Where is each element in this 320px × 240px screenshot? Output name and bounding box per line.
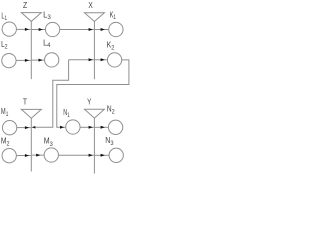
arrow into Y mast row C <box>89 126 93 129</box>
wire X to K2 <box>95 59 108 61</box>
mobile M1 <box>2 121 16 135</box>
arrow into L3 <box>39 28 43 31</box>
wire Z to L3 <box>32 29 46 31</box>
svg-text:L4: L4 <box>43 39 51 50</box>
svg-text:L2: L2 <box>1 40 8 50</box>
svg-text:M3: M3 <box>44 136 53 148</box>
mobile N1 <box>66 120 80 134</box>
mobile M2 <box>2 149 16 163</box>
svg-text:Z: Z <box>23 1 27 10</box>
arrow into T mast row D <box>25 154 29 157</box>
mobile L3 <box>45 22 59 36</box>
mobile N2 <box>108 120 122 134</box>
svg-text:L1: L1 <box>1 11 7 22</box>
wire X junction to T mast (routed) <box>32 60 69 128</box>
svg-text:T: T <box>23 98 27 107</box>
mobile K2 <box>107 53 121 67</box>
mobile M3 <box>44 148 58 162</box>
svg-text:N3: N3 <box>105 136 114 147</box>
mobile L4 <box>45 53 59 67</box>
arrow into M3 <box>36 154 40 157</box>
wire Z to L4 <box>32 59 45 61</box>
wire K2 to N1 (routed) <box>57 60 129 127</box>
svg-text:N1: N1 <box>63 108 70 119</box>
arrow into K1 <box>101 28 105 31</box>
wire M2 to T <box>16 155 30 157</box>
base station Z <box>21 13 41 80</box>
wire N1 to Y <box>80 126 94 128</box>
wire Y to N3 <box>95 154 109 156</box>
wire M3 to Y <box>59 154 94 156</box>
arrow into K2 <box>101 58 105 61</box>
arrow into T mast from east <box>32 126 35 129</box>
wire L3 to X <box>60 29 94 31</box>
arrow into N2 <box>101 126 105 129</box>
mobile L1 <box>2 22 16 36</box>
wire L2 to Z <box>16 59 31 61</box>
svg-text:Y: Y <box>87 98 92 107</box>
svg-text:L3: L3 <box>43 10 51 21</box>
base station X <box>85 13 105 80</box>
wire X to K1 <box>95 29 109 31</box>
arrow into T mast row C <box>25 126 29 129</box>
arrow into X mast row A <box>89 28 93 31</box>
arrow into X mast row B <box>89 58 93 61</box>
arrow into N3 <box>101 154 105 157</box>
mobile L2 <box>2 53 16 67</box>
wire M1 to T <box>17 127 31 129</box>
wire T to M3 <box>32 154 44 156</box>
arrow into Y mast row D <box>89 154 93 157</box>
base station Y <box>85 109 105 173</box>
mobile N3 <box>109 148 123 162</box>
arrow into Z mast row A <box>25 28 29 31</box>
wire L1 to Z <box>16 28 30 30</box>
svg-text:K1: K1 <box>110 10 117 21</box>
wire corner to X mast row B <box>69 59 94 61</box>
svg-text:X: X <box>88 1 93 10</box>
arrow into Z mast row B <box>25 59 29 62</box>
svg-text:K2: K2 <box>107 40 115 51</box>
svg-text:N2: N2 <box>107 105 115 116</box>
mobile K1 <box>109 22 123 36</box>
svg-text:M2: M2 <box>1 136 10 147</box>
arrow into N1 <box>60 126 64 129</box>
svg-text:M1: M1 <box>1 107 9 118</box>
base station T <box>21 109 41 171</box>
wire Y to N2 <box>95 126 109 128</box>
arrow into L4 <box>39 59 43 62</box>
